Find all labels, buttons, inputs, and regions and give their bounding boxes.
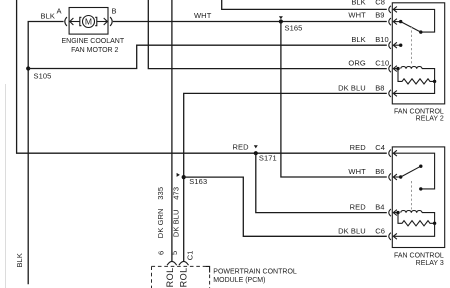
svg-text:S171: S171 <box>259 154 277 163</box>
wire BLK feed to relay2 C8 (vertical from top edge then right) <box>222 0 387 9</box>
pin B9 connector <box>389 18 391 25</box>
motor box <box>69 8 108 35</box>
linkage dashed <box>411 26 413 65</box>
connector A female arc <box>65 17 67 26</box>
svg-text:RED: RED <box>350 203 367 212</box>
node S105 <box>26 66 30 70</box>
svg-text:6: 6 <box>157 251 166 255</box>
resistor parallel <box>398 213 435 226</box>
svg-text:C4: C4 <box>375 143 385 152</box>
svg-text:BLK: BLK <box>351 35 365 44</box>
svg-text:FAN CONTROL: FAN CONTROL <box>394 108 444 115</box>
pin C4 connector <box>389 150 391 157</box>
brush left bracket <box>80 17 82 25</box>
svg-text:B9: B9 <box>375 10 384 19</box>
svg-text:RELAY 2: RELAY 2 <box>416 116 444 123</box>
wire RED feed from top edge to relay3 C4 <box>17 0 387 153</box>
svg-text:FAN MOTOR 2: FAN MOTOR 2 <box>71 47 118 54</box>
svg-text:5: 5 <box>170 251 179 255</box>
svg-text:B: B <box>112 7 117 16</box>
node S165 <box>279 19 283 23</box>
svg-text:DK GRN: DK GRN <box>156 208 165 238</box>
pin B6 connector <box>389 173 391 180</box>
svg-text:B10: B10 <box>375 35 389 44</box>
B9 pivot and switch blade <box>393 21 400 23</box>
svg-text:RELAY 3: RELAY 3 <box>416 260 444 267</box>
relay3 box <box>392 147 444 248</box>
scan artifact faint line left edge <box>5 84 7 288</box>
svg-text:DK BLU: DK BLU <box>172 209 181 237</box>
svg-text:POWERTRAIN CONTROL: POWERTRAIN CONTROL <box>213 268 297 275</box>
svg-text:WHT: WHT <box>194 11 212 20</box>
connector B male arrow <box>97 21 107 23</box>
svg-text:RED: RED <box>232 143 249 152</box>
svg-text:C6: C6 <box>375 226 385 235</box>
svg-text:473: 473 <box>172 187 181 200</box>
wire S105 branch to relay2 B10 (right, up, right) <box>28 45 387 68</box>
connector A male arrow <box>70 18 74 25</box>
PCM connector C1 and box <box>152 250 297 288</box>
svg-text:B8: B8 <box>375 83 384 92</box>
pin 5 bell terminal <box>179 261 189 265</box>
svg-text:ORG: ORG <box>348 59 365 68</box>
svg-text:BLK: BLK <box>41 12 55 21</box>
svg-text:C8: C8 <box>375 0 385 7</box>
svg-text:FAN CONTROL: FAN CONTROL <box>165 267 175 288</box>
linkage dashed <box>411 181 413 209</box>
motor circle M <box>83 16 95 28</box>
motor M1: ENGINE COOLANT FAN MOTOR 2 <box>57 7 125 54</box>
C4 internal wire to fixed contact <box>393 153 434 189</box>
wire DK GRN from top edge to PCM pin 6 <box>171 0 173 261</box>
svg-text:BLK: BLK <box>15 253 24 267</box>
C6 internal wire <box>393 223 434 236</box>
relay U2: FAN CONTROL RELAY 2 <box>389 3 445 123</box>
svg-text:WHT: WHT <box>348 10 366 19</box>
svg-text:335: 335 <box>156 187 165 200</box>
svg-text:WHT: WHT <box>348 167 366 176</box>
svg-text:MODULE (PCM): MODULE (PCM) <box>213 277 265 284</box>
node S171 <box>254 151 258 155</box>
svg-text:A: A <box>57 7 62 16</box>
pin C10 connector <box>389 65 391 72</box>
resistor parallel <box>398 69 435 84</box>
svg-text:RED: RED <box>350 143 367 152</box>
relay2 box <box>392 3 444 104</box>
brush right bracket <box>95 17 97 25</box>
svg-text:DK BLU: DK BLU <box>338 226 366 235</box>
pin C8 connector <box>389 6 391 13</box>
svg-text:S165: S165 <box>285 24 303 33</box>
coil <box>401 67 422 69</box>
wire RED S171 branch to relay3 B4 <box>256 153 387 212</box>
wire ORG feed from top edge to relay2 C10 <box>148 0 386 69</box>
PCM dashed box top edge <box>152 265 206 267</box>
svg-text:ENGINE COOLANT: ENGINE COOLANT <box>61 38 124 45</box>
wire BLK motor A to S105 and down (ground run) <box>28 22 63 285</box>
coil <box>401 211 422 213</box>
pin C6 connector <box>389 233 391 240</box>
PCM dashed left edge <box>151 266 153 288</box>
B6 pivot and open switch blade <box>393 176 400 178</box>
wire WHT motor B to relay2 B9 <box>113 21 387 23</box>
svg-text:M: M <box>85 16 92 26</box>
PCM dashed right edge <box>209 275 211 288</box>
pin B8 connector <box>389 90 391 97</box>
svg-text:S163: S163 <box>189 177 207 186</box>
wire WHT S165 branch to relay3 B6 <box>281 22 387 178</box>
PCM corner bracket <box>205 266 209 272</box>
svg-text:DK BLU: DK BLU <box>338 83 366 92</box>
pin 6 bell terminal <box>167 261 177 265</box>
C8 internal wire to fixed contact <box>393 9 434 32</box>
wire DK BLU relay2 B8 down to PCM pin 5 <box>184 93 387 261</box>
relay U3: FAN CONTROL RELAY 3 <box>389 147 445 267</box>
svg-text:FAN CONTROL: FAN CONTROL <box>179 267 189 288</box>
svg-text:C10: C10 <box>375 59 389 68</box>
svg-text:C1: C1 <box>186 250 195 260</box>
wire DK BLU S163 branch to relay3 C6 <box>184 177 387 236</box>
svg-text:BLK: BLK <box>351 0 365 7</box>
svg-text:S105: S105 <box>34 72 52 81</box>
connector B female arc <box>110 17 112 26</box>
node S163 <box>182 175 186 179</box>
pin B10 connector <box>389 42 391 49</box>
svg-text:B6: B6 <box>375 167 384 176</box>
svg-text:B4: B4 <box>375 203 384 212</box>
svg-text:FAN CONTROL: FAN CONTROL <box>394 253 444 260</box>
pin B4 connector <box>389 209 391 216</box>
B8 internal wire <box>393 81 434 93</box>
